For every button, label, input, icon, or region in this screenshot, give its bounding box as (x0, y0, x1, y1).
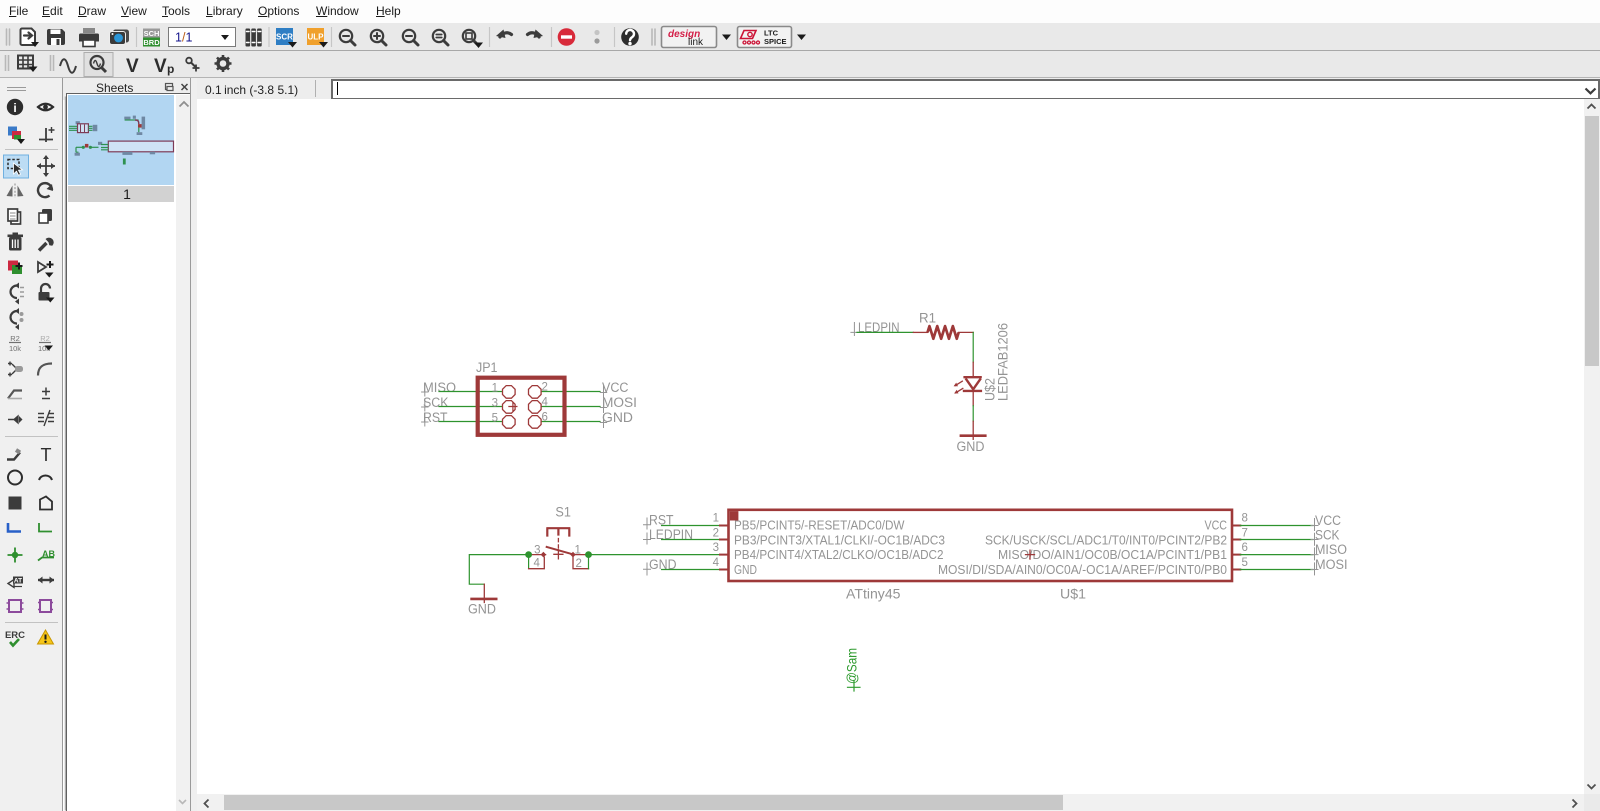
JP1 designator label (476, 360, 498, 375)
U$1 pin name PB1 (998, 547, 1227, 562)
S1 origin cross (554, 550, 563, 559)
svg-text:4: 4 (542, 397, 549, 409)
U$1 pin number 7 (1242, 528, 1248, 540)
junction node at S1 pin 3 (525, 551, 532, 558)
switch S1 frame (546, 528, 570, 551)
svg-text:10k: 10k (9, 344, 21, 353)
JP1 pad 3 (503, 401, 516, 414)
svg-text:U$1: U$1 (1060, 587, 1086, 602)
wire U$1 pin 7 to net SCK (1240, 539, 1313, 541)
svg-text:PB5/PCINT5/-RESET/ADC0/DW: PB5/PCINT5/-RESET/ADC0/DW (734, 518, 905, 533)
net label GND (600, 410, 633, 428)
ground label GND (S1) (468, 602, 496, 617)
svg-text:ERC: ERC (5, 630, 25, 641)
svg-text:1: 1 (575, 545, 581, 557)
svg-text:4: 4 (534, 558, 541, 570)
svg-text:6: 6 (1242, 542, 1248, 554)
LED U$2 cathode lead (972, 391, 974, 406)
U$1 pin 5 stub (1233, 569, 1241, 571)
svg-text:AT: AT (14, 578, 22, 585)
wire net RST to U$1 pin 1 (662, 525, 720, 527)
U$1 pin 6 stub (1233, 554, 1241, 556)
svg-text:2: 2 (576, 558, 582, 570)
net label LEDPIN (R1) (851, 320, 900, 336)
wire R1 corner down to LED (972, 332, 974, 362)
svg-text:p: p (167, 62, 174, 76)
svg-text:R2: R2 (10, 334, 20, 343)
JP1 pad 1 (503, 386, 516, 399)
wire net SCK to JP1 pin 3 (439, 406, 503, 408)
net label RST (U$1) (644, 512, 674, 529)
svg-text:R1: R1 (919, 311, 936, 326)
svg-text:@Sam: @Sam (844, 648, 860, 684)
U$1 pin name PB5 (734, 518, 905, 533)
JP1 pad 5 (503, 416, 516, 429)
svg-text:SCK/USCK/SCL/ADC1/T0/INT0/PCIN: SCK/USCK/SCL/ADC1/T0/INT0/PCINT2/PB2 (985, 533, 1227, 548)
JP1 pad 4 (529, 401, 542, 414)
net label LEDPIN (U$1) (644, 527, 694, 544)
U$1 pin name VCC (1205, 518, 1228, 533)
S1 pin number 3 (534, 545, 540, 557)
svg-text:V: V (154, 56, 167, 77)
svg-text:GND: GND (957, 439, 985, 454)
svg-text:MOSI/DI/SDA/AIN0/OC0A/-OC1A/AR: MOSI/DI/SDA/AIN0/OC0A/-OC1A/AREF/PCINT0/… (938, 562, 1227, 577)
svg-text:SCR: SCR (276, 33, 293, 42)
U$1 pin number 8 (1242, 513, 1248, 525)
svg-text:SCK: SCK (423, 395, 449, 410)
svg-text:1: 1 (713, 513, 719, 525)
svg-text:1/1: 1/1 (175, 31, 192, 45)
svg-text:4: 4 (713, 557, 720, 569)
U$1 pin number 2 (713, 528, 719, 540)
svg-text:MOSI: MOSI (602, 395, 637, 410)
JP1 pin number 1 (492, 383, 498, 395)
resistor R1 (913, 326, 973, 339)
wire net LEDPIN to U$1 pin 2 (662, 539, 720, 541)
svg-text:GND: GND (468, 602, 496, 617)
U$1 pin name PB2 (985, 533, 1227, 548)
svg-text:ULP: ULP (308, 33, 325, 42)
wire net RST to JP1 pin 5 (439, 421, 503, 423)
svg-text:3: 3 (492, 398, 498, 410)
net label MOSI (right) (1311, 557, 1348, 575)
U$1 pin number 6 (1242, 542, 1248, 554)
ground symbol GND (S1) (472, 584, 497, 602)
svg-text:5: 5 (1242, 557, 1248, 569)
svg-text:SCH: SCH (144, 29, 160, 38)
svg-text:MOSI: MOSI (1315, 557, 1348, 572)
svg-text:5: 5 (492, 413, 498, 425)
U$1 pin name PB4 (734, 547, 944, 562)
net label VCC (600, 380, 628, 398)
net label MOSI (600, 395, 637, 413)
net label VCC (right) (1311, 513, 1341, 531)
JP1 pin number 6 (542, 412, 548, 424)
S1 pin number 4 (534, 558, 541, 570)
JP1 pad 6 (529, 416, 542, 429)
S1 designator label (555, 505, 571, 520)
svg-text:MISO: MISO (423, 380, 456, 395)
wire LED to GND (972, 406, 974, 422)
svg-text:BRD: BRD (143, 38, 160, 47)
svg-text:8: 8 (1242, 513, 1248, 525)
JP1 pin number 2 (542, 382, 548, 394)
svg-text:link: link (688, 37, 704, 48)
svg-text:3: 3 (713, 542, 719, 554)
net label GND (U$1) (644, 557, 677, 575)
U$1 value label ATtiny45 (846, 587, 901, 602)
svg-text:3: 3 (534, 545, 540, 557)
U$1 pin name GND (734, 562, 757, 577)
U$2 designator label (983, 378, 998, 401)
svg-text:2: 2 (713, 528, 719, 540)
wire net MISO to JP1 pin 1 (439, 391, 503, 393)
svg-text:VCC: VCC (1205, 518, 1228, 533)
svg-text:7: 7 (1242, 528, 1248, 540)
connector JP1 body (478, 378, 565, 435)
U$1 pin 7 stub (1233, 539, 1241, 541)
net label SCK (right) (1311, 528, 1340, 546)
svg-text:R2: R2 (40, 334, 50, 343)
wire net LEDPIN to R1 (857, 331, 913, 333)
wire U$1 pin 5 to net MOSI (1240, 569, 1313, 571)
U$1 pin number 1 (713, 513, 719, 525)
U$1 pin 2 stub (720, 539, 728, 541)
S1 pin 1 stub (570, 552, 588, 558)
net label MISO (right) (1311, 542, 1347, 560)
svg-text:AB: AB (42, 549, 55, 559)
svg-text:ATtiny45: ATtiny45 (846, 587, 901, 602)
U$1 pin number 4 (713, 557, 720, 569)
S1 pin 3 stub (529, 552, 547, 558)
U$1 pin number 5 (1242, 557, 1248, 569)
U$1 pin 3 stub (720, 554, 728, 556)
svg-text:V: V (126, 56, 139, 77)
svg-text:GND: GND (734, 562, 757, 577)
wire JP1 pin 2 to net VCC (541, 391, 600, 393)
wire S1 to U$1 pin PB4 (589, 554, 721, 556)
svg-text:PB3/PCINT3/XTAL1/CLKI/-OC1B/AD: PB3/PCINT3/XTAL1/CLKI/-OC1B/ADC3 (734, 533, 945, 548)
text note @Sam (844, 648, 861, 691)
U$1 pin 8 stub (1233, 525, 1241, 527)
svg-text:PB4/PCINT4/XTAL2/CLKO/OC1B/ADC: PB4/PCINT4/XTAL2/CLKO/OC1B/ADC2 (734, 547, 944, 562)
S1 pin 2 branch (573, 555, 589, 569)
wire net GND to U$1 pin 4 (662, 569, 720, 571)
IC U$1 body (729, 510, 1233, 581)
JP1 pin number 3 (492, 398, 498, 410)
svg-text:2: 2 (542, 382, 548, 394)
U$1 pin 4 stub (720, 569, 728, 571)
U$1 pin name PB3 (734, 533, 945, 548)
S1 pin number 1 (575, 545, 581, 557)
net label RST (422, 410, 448, 426)
svg-text:T: T (41, 445, 52, 465)
U$1 pin 1 stub (720, 525, 728, 527)
LED U$2 anode lead (972, 362, 974, 377)
S1 pin 4 branch (529, 555, 545, 569)
svg-text:i: i (13, 101, 16, 115)
net label MISO (422, 380, 456, 396)
svg-text:MISO: MISO (1315, 542, 1347, 557)
wire JP1 pin 4 to net MOSI (541, 406, 600, 408)
S1 pin number 2 (576, 558, 582, 570)
JP1 origin cross on pad 3 (509, 403, 517, 411)
net label SCK (422, 395, 449, 411)
U$1 pin name PB0 (938, 562, 1227, 577)
ground symbol GND (LED) (961, 421, 985, 439)
LED U$2 symbol (954, 377, 981, 393)
svg-text:JP1: JP1 (476, 360, 498, 375)
svg-text:SCK: SCK (1315, 528, 1340, 543)
svg-text:6: 6 (542, 412, 548, 424)
U$1 pin number 3 (713, 542, 719, 554)
junction node at S1 pin 1 (585, 551, 592, 558)
wire U$1 pin 8 to net VCC (1240, 525, 1313, 527)
U$1 designator label (1060, 587, 1086, 602)
U$1 origin cross (1026, 550, 1035, 559)
svg-text:LEDFAB1206: LEDFAB1206 (996, 323, 1011, 401)
svg-text:S1: S1 (555, 505, 571, 520)
JP1 pad 2 (529, 386, 542, 399)
svg-text:1: 1 (492, 383, 498, 395)
JP1 pin number 4 (542, 397, 549, 409)
ground label GND (LED) (957, 439, 985, 454)
U$2 value label LEDFAB1206 (996, 323, 1011, 401)
R1 designator label (919, 311, 936, 326)
svg-text:SPICE: SPICE (764, 37, 787, 46)
wire S1 left to GND drop (469, 555, 528, 585)
S1 lever (547, 547, 573, 554)
svg-text:RST: RST (423, 410, 448, 425)
JP1 pin number 5 (492, 413, 498, 425)
svg-text:VCC: VCC (1315, 513, 1341, 528)
wire JP1 pin 6 to net GND (541, 421, 600, 423)
wire U$1 pin 6 to net MISO (1240, 554, 1313, 556)
